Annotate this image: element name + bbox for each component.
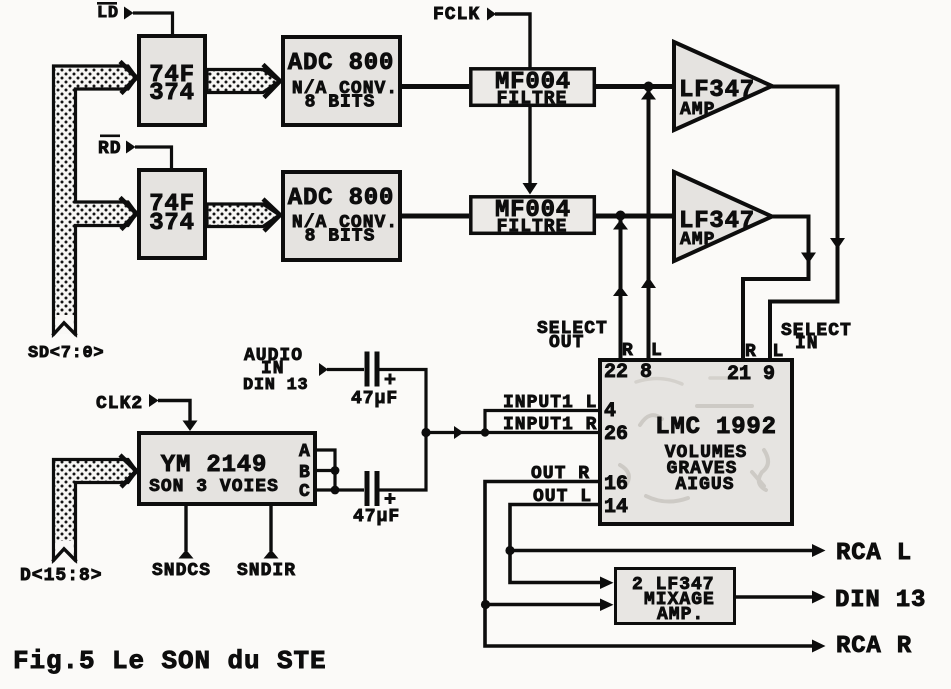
- IC LMC1992: [600, 360, 792, 524]
- wire audio-in to C1: [327, 368, 364, 371]
- svg-text:AIGUS: AIGUS: [675, 475, 734, 495]
- svg-text:47µF: 47µF: [351, 389, 398, 409]
- arrow RCA L: [812, 544, 826, 557]
- signal FCLK flag and label: [433, 5, 496, 25]
- mixer input flag 1: [600, 577, 614, 590]
- svg-text:B: B: [299, 463, 311, 483]
- mixer input flag 2: [600, 599, 614, 612]
- wire YM pin C to C2: [317, 488, 364, 491]
- op-amp mixer 2 LF347: [616, 569, 735, 626]
- svg-text:9: 9: [763, 363, 775, 386]
- IC ADC800-1: [283, 37, 400, 125]
- svg-text:SNDIR: SNDIR: [237, 561, 296, 581]
- junction dot R line: [616, 211, 626, 221]
- wire YM pin A: [317, 450, 335, 471]
- svg-text:C: C: [299, 482, 311, 502]
- svg-text:FILTRE: FILTRE: [497, 217, 568, 237]
- svg-text:IN: IN: [795, 334, 819, 354]
- IC YM2149: [139, 433, 315, 504]
- wire C1 to node: [380, 370, 427, 434]
- wire INPUT1 R to pin 26: [485, 431, 598, 434]
- wire FCLK to MF004-1: [495, 14, 530, 68]
- svg-text:22: 22: [604, 361, 628, 384]
- svg-text:DIN 13: DIN 13: [243, 376, 308, 395]
- svg-text:LD: LD: [97, 4, 119, 23]
- signal RD flag and label: [98, 135, 136, 160]
- svg-text:374: 374: [149, 80, 195, 107]
- junction dot audio node: [421, 428, 430, 437]
- svg-text:4: 4: [604, 400, 616, 423]
- svg-text:YM 2149: YM 2149: [161, 452, 267, 479]
- wire SNDCS: [179, 506, 194, 559]
- svg-text:ADC 800: ADC 800: [288, 50, 394, 77]
- svg-text:21: 21: [727, 363, 751, 386]
- svg-text:A: A: [299, 442, 311, 462]
- bus SD<7:0> body with arms: [53, 66, 137, 336]
- capacitor C2 47uF: [353, 471, 400, 527]
- wire C2 to node: [380, 433, 427, 490]
- svg-text:OUT: OUT: [549, 333, 584, 353]
- wire ADC-1 to MF004-1: [402, 84, 469, 89]
- bus D arm arrowhead chevron: [120, 455, 137, 487]
- junction dot input node: [481, 428, 489, 436]
- wire LD to 74F374-1: [133, 13, 173, 36]
- wire RD to 74F374-2: [135, 147, 172, 170]
- svg-text:16: 16: [604, 473, 628, 496]
- svg-text:374: 374: [149, 210, 195, 237]
- capacitor C1 47uF: [351, 352, 398, 410]
- junction dot L line: [644, 82, 654, 92]
- IC ADC800-2: [283, 172, 400, 260]
- wire MF004-2 to LF347-2: [596, 214, 674, 219]
- svg-text:D<15:8>: D<15:8>: [20, 566, 103, 586]
- label AUDIO IN DIN13: [243, 346, 308, 395]
- svg-text:8 BITS: 8 BITS: [305, 93, 376, 113]
- junction dot OUT L: [505, 546, 514, 555]
- svg-text:8 BITS: 8 BITS: [305, 227, 376, 247]
- junction dot C: [331, 486, 340, 495]
- svg-text:ADC 800: ADC 800: [288, 185, 394, 212]
- wire LF347-2 output to pin 21: [743, 217, 816, 359]
- wire audio node to inputs: [426, 426, 485, 439]
- svg-text:CLK2: CLK2: [96, 394, 143, 414]
- wire select L down to pin 8: [641, 87, 656, 359]
- wire CLK2 to YM2149: [158, 401, 198, 432]
- op-amp LF347-2: [674, 172, 772, 261]
- bus D<15:8> body with arm: [53, 460, 137, 562]
- op-amp LF347-1: [674, 42, 772, 130]
- svg-text:SON 3 VOIES: SON 3 VOIES: [149, 477, 279, 497]
- wire OUT R pin16 to mixer and RCA R: [485, 482, 812, 647]
- bus 74F374-1 to ADC-1: [207, 65, 280, 98]
- junction dot B: [331, 466, 340, 475]
- bus SD arm2 arrowhead chevron: [120, 198, 137, 230]
- wire LF347-1 output to pin 9: [770, 87, 845, 359]
- wire select R down to pin 22: [613, 216, 628, 359]
- arrow RCA R: [812, 640, 826, 653]
- wire INPUT1 L to pin 4: [485, 411, 598, 433]
- svg-text:AMP: AMP: [680, 230, 715, 250]
- svg-text:47µF: 47µF: [353, 507, 400, 527]
- wire FCLK MF004-1 to MF004-2: [523, 107, 538, 195]
- svg-text:Fig.5 Le SON du STE: Fig.5 Le SON du STE: [13, 646, 327, 676]
- filter MF004-2: [471, 197, 595, 237]
- svg-text:AMP: AMP: [680, 100, 715, 120]
- svg-text:AMP.: AMP.: [657, 605, 704, 625]
- wire ADC-2 to MF004-2: [402, 214, 469, 219]
- svg-text:SNDCS: SNDCS: [152, 561, 211, 581]
- signal CLK2 flag and label: [96, 394, 159, 414]
- wire OUT L pin14 to mixer and RCA L: [510, 505, 812, 583]
- wire SNDIR: [264, 506, 279, 559]
- signal AUDIO IN flag: [319, 363, 328, 376]
- svg-text:RCA R: RCA R: [836, 633, 912, 660]
- svg-text:8: 8: [640, 361, 652, 384]
- junction dot OUT R: [481, 600, 490, 609]
- svg-text:INPUT1 R: INPUT1 R: [503, 415, 597, 435]
- svg-text:FCLK: FCLK: [433, 5, 480, 25]
- IC 74F374-2: [139, 170, 205, 258]
- bus 74F374-2 to ADC-2: [207, 199, 280, 231]
- filter MF004-1: [471, 69, 595, 109]
- svg-text:SD<7:0>: SD<7:0>: [28, 344, 104, 363]
- label SELECT OUT: [537, 319, 608, 353]
- wire MF004-1 to LF347-1: [596, 84, 674, 89]
- IC 74F374-1: [139, 36, 205, 125]
- svg-text:INPUT1 L: INPUT1 L: [503, 393, 597, 413]
- svg-text:LMC 1992: LMC 1992: [655, 414, 777, 441]
- svg-text:RCA L: RCA L: [836, 540, 912, 567]
- svg-text:14: 14: [604, 496, 628, 519]
- svg-text:FILTRE: FILTRE: [497, 89, 568, 109]
- label SELECT IN: [781, 321, 852, 354]
- bus SD arm1 arrowhead chevron: [120, 62, 137, 94]
- svg-text:DIN 13: DIN 13: [835, 587, 926, 614]
- wire YM pin B: [317, 471, 335, 491]
- svg-text:26: 26: [604, 423, 628, 446]
- signal LD flag and label: [97, 2, 134, 23]
- wire mixer out DIN13: [736, 591, 826, 604]
- svg-text:RD: RD: [98, 139, 122, 159]
